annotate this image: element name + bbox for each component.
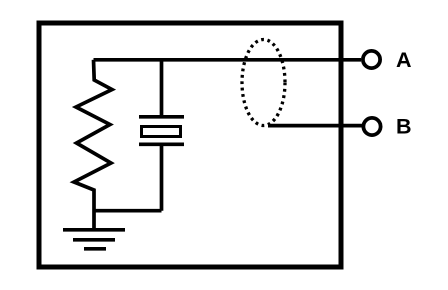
ground [63,230,125,249]
terminal B [363,118,380,135]
crystal top lead [160,60,164,116]
resistor [74,60,112,230]
svg-text:B: B [396,115,412,139]
wire top (node A net) [94,58,362,62]
terminal A [363,51,380,68]
shield ellipse (dotted) [242,40,285,126]
wire bottom (resistor to crystal) [94,209,162,213]
crystal body [142,127,181,137]
crystal bottom lead [160,146,164,211]
crystal top plate [139,115,184,119]
crystal bottom plate [139,143,184,147]
svg-text:A: A [396,48,412,72]
enclosure box [39,23,341,267]
wire to terminal B [268,124,362,128]
